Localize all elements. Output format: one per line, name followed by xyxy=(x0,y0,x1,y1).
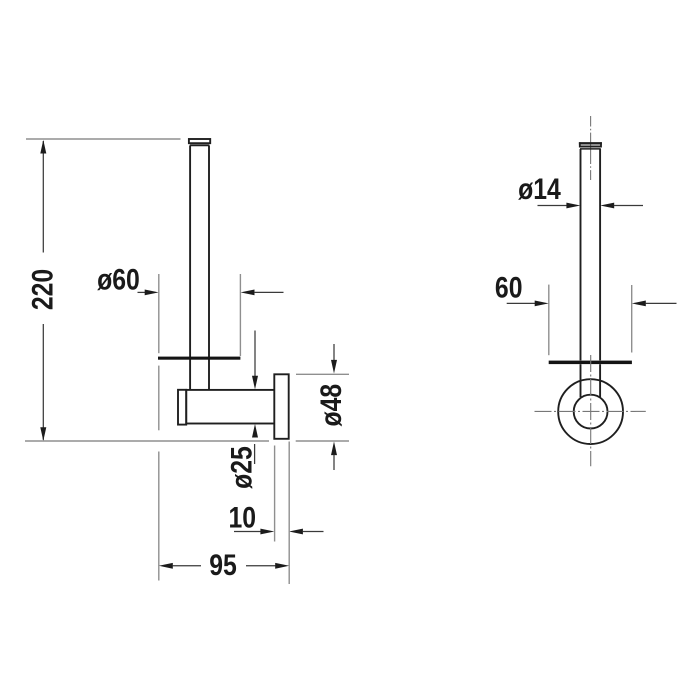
dimension ø48 lower arrow xyxy=(331,442,337,471)
dimension ø25 lower arrow xyxy=(252,424,258,464)
rod top cap (side view) xyxy=(189,139,210,145)
dimension 95 right arrow xyxy=(246,563,289,569)
rod (side view) left edge xyxy=(189,146,191,390)
extension line plate right xyxy=(288,442,290,585)
dimension 60 left arrow xyxy=(507,301,549,307)
extension line plate left xyxy=(274,446,276,542)
dimension ø25 upper arrow xyxy=(252,331,258,390)
svg-text:220: 220 xyxy=(25,269,59,310)
roll stop disc (front view) xyxy=(549,361,632,365)
extension line bottom left of plate xyxy=(25,440,269,442)
dimension 220 arrow up xyxy=(40,140,46,154)
svg-text:ø60: ø60 xyxy=(97,262,140,296)
dimension 10 right arrow xyxy=(289,529,324,535)
rod top cap (front view) xyxy=(579,142,602,149)
dimension 95 left arrow xyxy=(159,563,201,569)
extension line 60 left xyxy=(548,285,550,356)
dimension ø60 left arrow xyxy=(138,290,159,296)
mounting arm body (side view) xyxy=(186,390,274,424)
dimension 220 arrow down xyxy=(40,427,46,441)
svg-text:ø48: ø48 xyxy=(314,384,348,427)
arm inner circle (front view) xyxy=(574,395,608,429)
extension line 60 right xyxy=(631,285,633,353)
rod (side view) right edge xyxy=(208,146,210,390)
rod (front view) left edge xyxy=(580,149,582,360)
circle vertical centerline xyxy=(590,355,592,466)
dimension ø48 upper arrow xyxy=(331,344,337,374)
wall plate outer circle (front view) xyxy=(558,379,623,444)
svg-text:60: 60 xyxy=(495,270,523,304)
extension line ø60 right xyxy=(239,274,241,356)
dimension ø60 right arrow xyxy=(241,290,284,296)
extension line ø48 top xyxy=(296,373,349,375)
svg-text:ø14: ø14 xyxy=(518,172,561,206)
dimension ø14 right arrow xyxy=(600,203,643,209)
svg-text:95: 95 xyxy=(209,548,237,582)
dimension 220 line xyxy=(42,141,44,440)
rod below disc left edge xyxy=(580,364,582,397)
roll stop disc (side view) xyxy=(158,357,240,360)
dimension 60 right arrow xyxy=(632,301,677,307)
circle horizontal centerline xyxy=(535,410,646,412)
extension line bottom right of plate xyxy=(296,440,349,442)
wall plate (side view) xyxy=(274,374,288,439)
svg-text:10: 10 xyxy=(229,501,257,535)
rod below disc right edge xyxy=(599,364,601,397)
dimension ø14 left arrow xyxy=(538,203,581,209)
dimension 10 left arrow xyxy=(234,529,274,535)
extension line ø60/95 left xyxy=(158,274,160,581)
rod (front view) right edge xyxy=(599,149,601,360)
mounting arm collar (side view) xyxy=(178,390,186,425)
svg-text:ø25: ø25 xyxy=(224,446,258,489)
centerline above rod xyxy=(590,116,592,180)
extension line top (overall height reference) xyxy=(26,138,181,140)
